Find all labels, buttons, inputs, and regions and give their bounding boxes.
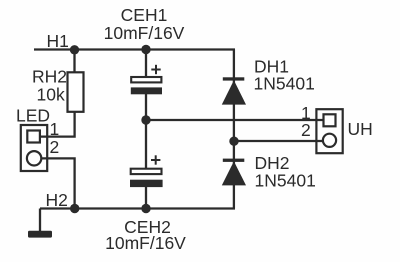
wire LED pin 2 to bottom net [42,158,75,208]
capacitor CEH2 [130,169,163,187]
svg-text:UH: UH [348,119,373,139]
junction dot H2/CEH2 [141,204,150,213]
wire CEH2 bottom lead [145,186,147,209]
junction dot H1/RH2 [70,45,79,54]
junction dot CEH1/CEH2/net1 [141,115,150,124]
svg-text:2: 2 [301,120,311,140]
connector UH pin 2 circle [323,134,336,147]
wire ground drop [39,209,41,232]
capacitor CEH2 plus sign [151,155,160,164]
connector LED box [21,125,47,171]
svg-text:1N5401: 1N5401 [254,74,315,94]
capacitor CEH1 [131,77,162,94]
connector UH pin 1 square [324,114,336,126]
connector UH box [316,109,342,153]
svg-text:H1: H1 [47,31,69,51]
connector LED pin 1 square [27,131,40,143]
resistor RH2 [68,72,84,112]
capacitor CEH1 plus sign [151,65,160,74]
svg-text:10mF/16V: 10mF/16V [105,233,186,253]
svg-text:H2: H2 [46,190,68,210]
diode DH1 [222,77,246,104]
wire middle net 1 to UH pin 1 [146,119,327,121]
junction dot H1/CEH1 [141,45,150,54]
svg-text:10k: 10k [37,85,65,105]
wire CEH1 top lead [145,50,147,80]
wire top net H1 [34,48,235,50]
wire bottom net H2 [40,207,235,209]
wire RH2 top lead [73,50,75,74]
ground [28,231,52,238]
svg-text:1: 1 [50,119,60,139]
diode DH2 [222,159,246,186]
connector LED pin 2 circle [27,151,41,165]
wire RH2 bottom lead to LED pin 1 [40,111,75,137]
junction dot DH1/DH2/net2 [229,137,238,146]
wire CEH1 bottom lead to node [145,92,147,169]
wire net 2 to UH pin 2 [234,140,327,142]
junction dot H2/LED pin2 [70,204,79,213]
wire vertical DH1/DH2 branch [233,50,235,209]
svg-text:RH2: RH2 [32,67,67,87]
svg-text:1N5401: 1N5401 [255,171,316,191]
svg-text:10mF/16V: 10mF/16V [104,23,185,43]
svg-text:LED: LED [16,106,50,126]
svg-text:2: 2 [50,137,60,157]
svg-text:CEH1: CEH1 [121,5,168,25]
